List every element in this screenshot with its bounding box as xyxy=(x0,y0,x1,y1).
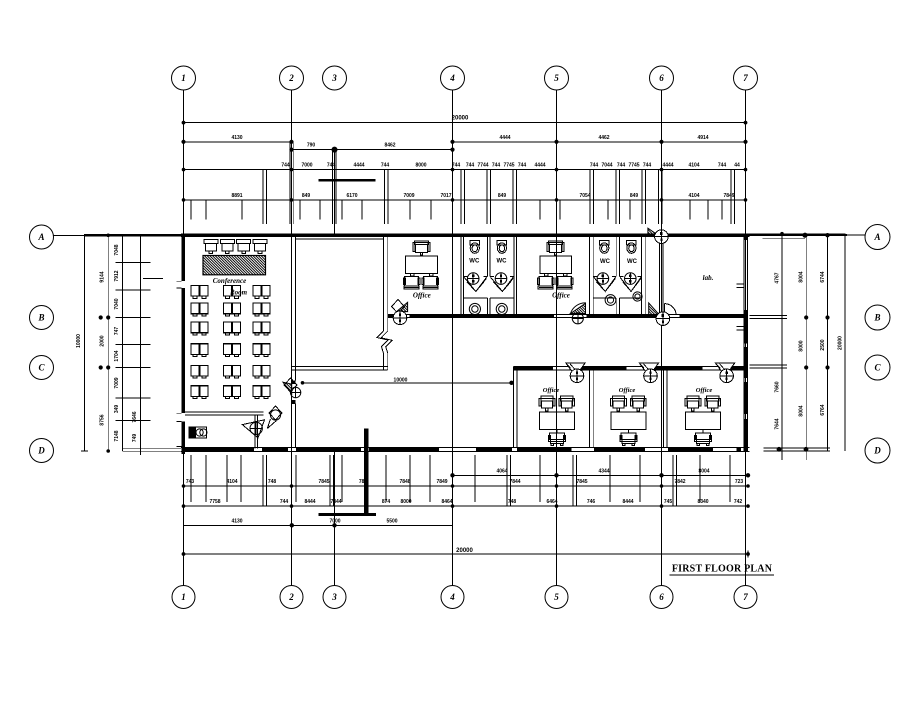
svg-text:A: A xyxy=(37,232,44,242)
bottom office chair xyxy=(620,433,637,446)
svg-text:7844: 7844 xyxy=(509,479,520,485)
corridor dimension line xyxy=(303,382,514,384)
svg-text:7744: 7744 xyxy=(477,163,488,169)
svg-text:2500: 2500 xyxy=(820,339,826,350)
svg-text:8340: 8340 xyxy=(697,499,708,505)
bottom dimension line 4 (left wing) xyxy=(184,524,453,526)
lab door swing arc xyxy=(665,304,677,316)
svg-text:746: 746 xyxy=(587,499,596,505)
svg-text:849: 849 xyxy=(498,193,507,199)
toilet xyxy=(470,241,480,254)
bottom office armchairs xyxy=(685,396,701,411)
svg-text:10000: 10000 xyxy=(76,334,82,348)
grid bubble B left xyxy=(30,306,54,330)
grid bubble 7 top xyxy=(734,66,758,90)
grid line 6 vertical xyxy=(661,90,663,586)
svg-text:7148: 7148 xyxy=(114,430,120,441)
bottom office armchairs xyxy=(539,396,555,411)
svg-text:6764: 6764 xyxy=(820,404,826,415)
svg-text:7845: 7845 xyxy=(576,479,587,485)
svg-text:7745: 7745 xyxy=(503,163,514,169)
svg-text:742: 742 xyxy=(734,499,743,505)
svg-text:FIRST FLOOR PLAN: FIRST FLOOR PLAN xyxy=(672,564,773,575)
svg-text:4064: 4064 xyxy=(496,468,507,474)
right C-row tick xyxy=(750,364,788,366)
bottom office desk xyxy=(611,412,646,430)
svg-text:20000: 20000 xyxy=(838,336,844,350)
left D-row double tick xyxy=(122,447,181,449)
bottom office door tags xyxy=(566,363,585,376)
office 1 (top) desk xyxy=(406,256,438,274)
grid bubble 5 bottom xyxy=(545,586,568,609)
svg-text:748: 748 xyxy=(508,499,517,505)
grid bubble A left xyxy=(30,225,54,249)
svg-text:4462: 4462 xyxy=(598,135,609,141)
svg-text:6170: 6170 xyxy=(346,193,357,199)
svg-text:8000: 8000 xyxy=(799,340,805,351)
top dimension line 3 xyxy=(184,169,746,171)
svg-text:WC: WC xyxy=(600,259,611,265)
svg-text:8444: 8444 xyxy=(622,499,633,505)
svg-text:7745: 7745 xyxy=(628,163,639,169)
office 2 (top) desk xyxy=(540,256,572,274)
svg-text:B: B xyxy=(37,313,44,323)
svg-text:Conference: Conference xyxy=(213,277,246,285)
lobby door pennant and tag xyxy=(283,382,292,394)
svg-text:744: 744 xyxy=(718,163,727,169)
svg-text:Office: Office xyxy=(413,292,431,300)
grid bubble D right xyxy=(865,438,890,463)
svg-text:2000: 2000 xyxy=(100,335,106,346)
right dimension top connector xyxy=(750,233,846,235)
svg-text:7660: 7660 xyxy=(775,381,781,392)
svg-text:790: 790 xyxy=(307,143,316,149)
svg-text:44: 44 xyxy=(734,163,740,169)
grid bubble D left xyxy=(30,439,54,463)
svg-text:lab.: lab. xyxy=(703,274,714,282)
svg-text:6: 6 xyxy=(659,592,664,602)
svg-text:744: 744 xyxy=(281,163,290,169)
svg-text:849: 849 xyxy=(630,193,639,199)
svg-text:A: A xyxy=(873,232,880,242)
WC sink counters (east block) xyxy=(593,297,616,299)
grid bubble 6 bottom xyxy=(650,586,673,609)
grid bubble A right xyxy=(865,225,890,250)
conference seat rows xyxy=(191,286,208,299)
WC door tags xyxy=(467,273,479,285)
grid bubble 4 top xyxy=(441,66,465,90)
svg-text:1: 1 xyxy=(181,592,186,602)
toilet xyxy=(497,241,507,254)
toilet xyxy=(600,241,610,254)
svg-text:4104: 4104 xyxy=(688,193,699,199)
svg-text:849: 849 xyxy=(302,193,311,199)
svg-text:8891: 8891 xyxy=(231,193,242,199)
svg-text:Office: Office xyxy=(543,387,560,394)
bottom office chair xyxy=(695,433,712,446)
grid bubble 1 bottom xyxy=(172,586,195,609)
svg-text:5: 5 xyxy=(554,73,559,83)
right dimension line 4 xyxy=(844,234,846,451)
svg-text:9144: 9144 xyxy=(100,271,106,282)
conference head chairs xyxy=(204,240,218,254)
svg-text:Office: Office xyxy=(552,292,570,300)
svg-text:7048: 7048 xyxy=(114,244,120,255)
svg-text:4344: 4344 xyxy=(598,468,609,474)
corridor north wall (under offices and WCs) xyxy=(388,314,744,316)
grid line 3 vertical lower xyxy=(334,451,336,586)
bottom office chair xyxy=(549,433,566,446)
svg-text:D: D xyxy=(37,446,45,456)
svg-text:7646: 7646 xyxy=(132,411,138,422)
top dimension line 2 right segment xyxy=(453,141,746,143)
grid bubble 1 top xyxy=(172,66,196,90)
wall on grid 2 (conference east wall) xyxy=(291,237,293,381)
left dimension line overall xyxy=(83,235,85,451)
svg-text:Office: Office xyxy=(619,387,636,394)
svg-text:C: C xyxy=(38,363,45,373)
top dimension line 2 middle segment xyxy=(292,149,453,151)
left dimension line 2 xyxy=(107,235,109,451)
svg-text:4767: 4767 xyxy=(775,272,781,283)
WC sink counters (west block) xyxy=(464,297,488,299)
svg-text:4444: 4444 xyxy=(353,163,364,169)
grid bubble C left xyxy=(30,356,54,380)
svg-text:744: 744 xyxy=(466,163,475,169)
svg-text:4444: 4444 xyxy=(534,163,545,169)
top dimension line 4 xyxy=(184,199,746,201)
office 1 door hatch and tag xyxy=(397,302,408,311)
grid bubble 2 bottom xyxy=(280,586,303,609)
svg-text:8464: 8464 xyxy=(441,499,452,505)
svg-text:7000: 7000 xyxy=(301,163,312,169)
bottom dimension line 3 xyxy=(184,505,749,507)
svg-text:WC: WC xyxy=(627,259,638,265)
conference south wall xyxy=(185,411,263,413)
svg-text:7054: 7054 xyxy=(579,193,590,199)
lobby east wall xyxy=(382,237,384,331)
office 1 (top) seats xyxy=(403,276,420,289)
WC stall walls (west block) xyxy=(460,237,462,317)
grid line A horizontal left xyxy=(54,234,182,236)
kitchen door leaf triangle and tag xyxy=(242,420,264,438)
svg-text:7017: 7017 xyxy=(440,193,451,199)
svg-text:3: 3 xyxy=(331,592,337,602)
svg-text:6: 6 xyxy=(659,73,664,83)
grid line 7 vertical xyxy=(745,90,747,586)
top wall door tag at grid 6 xyxy=(648,228,660,236)
svg-text:744: 744 xyxy=(327,163,336,169)
left dimension line 3 xyxy=(121,235,123,451)
bottom dimension line 2 xyxy=(184,485,749,487)
svg-text:C: C xyxy=(874,363,881,373)
svg-text:8444: 8444 xyxy=(304,499,315,505)
svg-text:4130: 4130 xyxy=(231,135,242,141)
svg-text:1: 1 xyxy=(181,73,186,83)
svg-text:747: 747 xyxy=(114,327,120,336)
grid bubble 6 top xyxy=(650,66,674,90)
section cut mark bottom vertical xyxy=(364,429,369,517)
WC stall walls (east block) xyxy=(589,237,591,317)
bottom office desk xyxy=(539,412,574,430)
bottom dimension line 5 (overall) xyxy=(184,553,749,555)
svg-text:744: 744 xyxy=(617,163,626,169)
grid bubble B right xyxy=(865,305,890,330)
svg-text:8462: 8462 xyxy=(384,143,395,149)
svg-text:8000: 8000 xyxy=(415,163,426,169)
svg-text:2: 2 xyxy=(288,592,294,602)
hall door tag (diamond with leaf) xyxy=(269,406,282,420)
grid line A horizontal right xyxy=(750,234,848,236)
conference table (hatched) xyxy=(203,256,266,275)
svg-text:7: 7 xyxy=(743,592,748,602)
grid line 2 vertical xyxy=(291,90,293,586)
grid bubble 3 top xyxy=(323,66,347,90)
lobby north inner line xyxy=(295,238,383,240)
svg-text:8004: 8004 xyxy=(799,405,805,416)
svg-text:8004: 8004 xyxy=(799,271,805,282)
office 2 (top) seats xyxy=(537,276,554,289)
lobby south wall xyxy=(292,365,388,367)
svg-text:WC: WC xyxy=(497,259,508,265)
WC door swings xyxy=(464,277,486,291)
left dimension line 4 xyxy=(139,235,141,455)
bottom offices partition walls xyxy=(512,366,514,447)
svg-text:744: 744 xyxy=(590,163,599,169)
grid bubble 4 bottom xyxy=(441,586,464,609)
svg-text:744: 744 xyxy=(280,499,289,505)
lobby east wall break symbol xyxy=(377,331,388,353)
svg-text:744: 744 xyxy=(643,163,652,169)
top dimension line 1 (overall) xyxy=(184,122,746,124)
svg-text:7845: 7845 xyxy=(318,479,329,485)
right dimension line 3 xyxy=(827,234,829,451)
svg-text:6464: 6464 xyxy=(546,499,557,505)
svg-text:7040: 7040 xyxy=(114,298,120,309)
svg-text:6744: 6744 xyxy=(820,271,826,282)
grid line 5 vertical xyxy=(556,90,558,586)
exterior wall top xyxy=(181,234,750,237)
bottom office armchairs xyxy=(611,396,627,411)
kitchen door jamb wall xyxy=(254,415,256,448)
svg-text:1704: 1704 xyxy=(114,350,120,361)
top dimension line 2 left segment xyxy=(184,141,292,143)
section cut mark bottom horizontal xyxy=(319,513,377,516)
grid bubble C right xyxy=(865,355,890,380)
svg-text:7758: 7758 xyxy=(209,499,220,505)
bottom dimension extension ticks (single) xyxy=(190,455,192,502)
top dimension extension ticks (double) xyxy=(262,170,264,224)
svg-text:7000: 7000 xyxy=(329,518,340,524)
svg-text:WC: WC xyxy=(469,259,480,265)
svg-text:744: 744 xyxy=(492,163,501,169)
bottom dimension extension ticks (double) xyxy=(262,455,264,506)
svg-text:4444: 4444 xyxy=(662,163,673,169)
grid bubble 2 top xyxy=(280,66,304,90)
svg-text:4104: 4104 xyxy=(688,163,699,169)
grid line 3 vertical upper xyxy=(334,150,336,234)
left A-row thick tick xyxy=(84,234,181,237)
svg-text:20000: 20000 xyxy=(456,548,473,554)
right B-row tick xyxy=(750,315,788,317)
svg-text:744: 744 xyxy=(518,163,527,169)
svg-text:748: 748 xyxy=(268,479,277,485)
top dimension extension ticks (single) xyxy=(190,200,192,220)
grid bubble 3 bottom xyxy=(323,586,346,609)
grid line 1 vertical xyxy=(183,90,185,586)
svg-text:749: 749 xyxy=(132,434,138,443)
svg-text:7849: 7849 xyxy=(436,479,447,485)
exterior wall right xyxy=(743,234,745,452)
exterior wall left xyxy=(181,234,185,455)
office 1 (top) chair xyxy=(413,241,430,255)
section cut mark top xyxy=(319,179,376,182)
kitchen counter symbol xyxy=(189,427,207,438)
svg-text:7044: 7044 xyxy=(601,163,612,169)
svg-text:7009: 7009 xyxy=(114,377,120,388)
right dimension line 1 xyxy=(781,234,783,460)
svg-text:2: 2 xyxy=(288,73,294,83)
grid line 4 vertical xyxy=(452,90,454,586)
svg-text:4: 4 xyxy=(449,592,455,602)
svg-text:7: 7 xyxy=(743,73,748,83)
grid bubble 5 top xyxy=(545,66,569,90)
svg-text:723: 723 xyxy=(735,479,744,485)
right dimension bottom connector xyxy=(764,447,831,449)
svg-text:744: 744 xyxy=(452,163,461,169)
svg-text:8756: 8756 xyxy=(100,414,106,425)
right dimension line 2 xyxy=(805,234,807,460)
svg-text:743: 743 xyxy=(186,479,195,485)
svg-text:B: B xyxy=(873,313,880,323)
svg-text:3: 3 xyxy=(331,73,337,83)
grid bubble 7 bottom xyxy=(734,586,757,609)
svg-text:4104: 4104 xyxy=(226,479,237,485)
svg-text:5: 5 xyxy=(554,592,559,602)
svg-text:4444: 4444 xyxy=(499,135,510,141)
svg-text:4130: 4130 xyxy=(231,518,242,524)
toilet xyxy=(627,241,637,254)
svg-text:7848: 7848 xyxy=(399,479,410,485)
svg-text:5500: 5500 xyxy=(386,518,397,524)
svg-text:7009: 7009 xyxy=(403,193,414,199)
svg-text:7912: 7912 xyxy=(114,270,120,281)
office 2 (top) chair xyxy=(547,241,564,255)
svg-text:10000: 10000 xyxy=(394,377,408,383)
svg-text:349: 349 xyxy=(114,405,120,414)
bottom office desk xyxy=(685,412,720,430)
svg-text:20000: 20000 xyxy=(452,116,469,122)
svg-text:D: D xyxy=(873,446,881,456)
exterior wall bottom xyxy=(181,446,750,448)
svg-text:745: 745 xyxy=(664,499,673,505)
office 2 door hatch and tag xyxy=(571,303,586,313)
svg-text:4: 4 xyxy=(449,73,455,83)
svg-text:7844: 7844 xyxy=(330,499,341,505)
svg-text:4914: 4914 xyxy=(697,135,708,141)
svg-text:7644: 7644 xyxy=(775,418,781,429)
svg-text:Office: Office xyxy=(696,387,713,394)
svg-text:744: 744 xyxy=(381,163,390,169)
left wall window tick at B level xyxy=(143,278,163,280)
svg-text:7849: 7849 xyxy=(723,193,734,199)
bottom offices north wall xyxy=(513,365,744,367)
bottom dimension line 1 (right wing) xyxy=(453,474,749,476)
lab door tag xyxy=(649,303,661,317)
